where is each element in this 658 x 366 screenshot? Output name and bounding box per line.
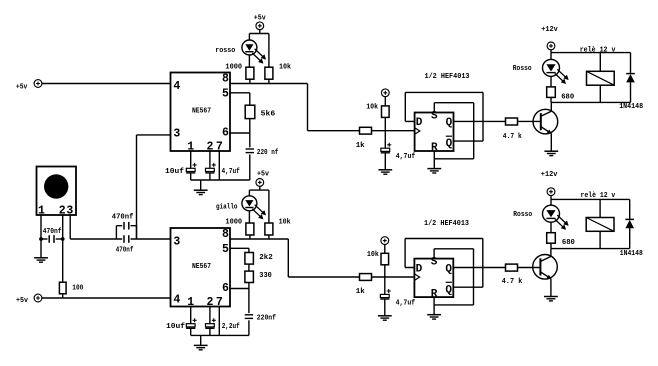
capacitor 10uf (U2 pin 1) (166, 307, 197, 336)
svg-text:6: 6 (222, 282, 229, 295)
supply terminal (FF2 10k) (381, 237, 389, 254)
svg-text:220nf: 220nf (257, 315, 277, 323)
capacitor 4,7uf (FF2 clock filter) (380, 289, 415, 316)
svg-text:relè 12 v: relè 12 v (581, 192, 616, 200)
resistor 4.7 k (Q2 base) (502, 264, 540, 286)
label 1/2 HEF4013 (FF1) (425, 73, 470, 81)
relay RL2 12 v (581, 192, 616, 248)
wire U1 pin 3 coupling net (137, 135, 171, 239)
diode 1N4148 (flyback 2) (620, 199, 643, 257)
relay RL1 12 v (580, 46, 616, 102)
wire U2 pin 7 to ground rail (218, 307, 220, 336)
ground (U1 caps) (194, 180, 208, 195)
svg-text:5: 5 (222, 88, 229, 101)
label 1/2 HEF4013 (FF2) (424, 220, 469, 228)
capacitor 220nf (U2 timing) (245, 289, 277, 336)
svg-text:+5v: +5v (16, 84, 28, 92)
transistor Q2 (NPN) (533, 254, 558, 279)
wire +5v to U2 pin 4 (41, 297, 170, 299)
wire LED/resistor split 2 (249, 190, 269, 223)
svg-text:10k: 10k (279, 218, 291, 226)
svg-text:+12v: +12v (541, 171, 558, 179)
resistor 10k (FF1 clock bias) (366, 103, 389, 148)
svg-text:+5v: +5v (257, 171, 269, 179)
wire U1 pin 6 (230, 132, 250, 134)
wire FF2 D to Qbar feedback (405, 239, 483, 288)
resistor 2k2 (U2 pin 5) (230, 248, 273, 271)
resistor 10k (pull-up U1 pin 8) (265, 63, 292, 83)
diode 1N4148 (flyback 1) (619, 53, 643, 111)
capacitor 4,7uf (U1 pin 2) (205, 151, 240, 180)
svg-text:10k: 10k (279, 63, 291, 71)
supply terminal +12v (top) (541, 26, 558, 53)
transistor Q1 (NPN) (533, 109, 558, 134)
svg-text:100: 100 (72, 284, 83, 292)
svg-text:1/2 HEF4013: 1/2 HEF4013 (424, 220, 469, 228)
wire FF1 S to ground loop (434, 103, 473, 159)
svg-text:giallo: giallo (216, 203, 238, 211)
resistor 5k6 (U1 pin5-pin6) (230, 93, 276, 133)
capacitor 470nf (top of parallel pair) (112, 214, 137, 239)
wire collector rail 2 (551, 248, 630, 250)
svg-text:470nf: 470nf (112, 214, 134, 222)
svg-text:3: 3 (173, 128, 180, 141)
svg-text:5k6: 5k6 (261, 110, 276, 118)
svg-text:D: D (416, 117, 423, 129)
LED Rosso D4 (513, 199, 568, 232)
ground (FF2 R) (427, 315, 441, 319)
svg-text:Q: Q (446, 117, 453, 129)
flip-flop U4 1/2 HEF4013 (414, 257, 453, 301)
ground (mic) (34, 258, 48, 262)
svg-text:1000: 1000 (225, 218, 242, 226)
svg-text:220 nf: 220 nf (257, 149, 279, 157)
wire collector rail 1 (551, 101, 631, 103)
IC U2 NE567 (bottom tone decoder) (171, 228, 231, 309)
resistor 10k (FF2 clock bias) (367, 251, 389, 295)
svg-text:470nf: 470nf (116, 247, 134, 255)
ground (FF1 R) (427, 169, 441, 173)
wire +5v to U1 pin 4 (41, 83, 170, 85)
svg-text:680: 680 (561, 93, 574, 101)
svg-text:Q: Q (445, 263, 452, 275)
svg-text:Q: Q (446, 138, 453, 150)
svg-text:NE567: NE567 (192, 263, 211, 271)
resistor 680 (LED Rosso 2) (547, 233, 576, 249)
svg-text:Q: Q (445, 284, 452, 296)
resistor 100 (mic bias) (59, 282, 83, 298)
svg-text:4: 4 (173, 294, 180, 307)
svg-text:470nf: 470nf (43, 228, 62, 236)
capacitor 220 nf (U1 timing) (246, 133, 279, 180)
resistor 10k (pull-up U2 pin 8) (265, 218, 291, 239)
svg-text:4: 4 (173, 80, 180, 93)
wire U2 pin 6 (230, 288, 249, 290)
wire U1 pin 8 output net (230, 84, 360, 131)
svg-text:1N4148: 1N4148 (619, 103, 643, 111)
svg-text:10k: 10k (366, 103, 378, 111)
ground (FF2 cap) (378, 316, 392, 320)
svg-text:Rosso: Rosso (513, 211, 532, 219)
wire +12v rail (top) (551, 52, 631, 54)
LED Rosso D3 (513, 53, 569, 87)
wire Q2 emitter to ground (550, 279, 552, 297)
resistor 1000 (LED rosso) (225, 63, 254, 83)
wire mic pin 1 to ground (40, 215, 42, 258)
svg-text:10uf: 10uf (166, 323, 186, 331)
wire FF2 Q output (453, 267, 505, 269)
capacitor 4,7uf (FF1 clock filter) (381, 143, 416, 170)
flip-flop U3 1/2 HEF4013 (415, 111, 454, 155)
resistor 1k (U1 out to FF1 clock) (356, 127, 415, 150)
svg-text:330: 330 (259, 272, 272, 280)
IC U1 NE567 (top tone decoder) (171, 73, 231, 154)
svg-text:1000: 1000 (225, 63, 242, 71)
svg-text:rosso: rosso (215, 47, 235, 55)
capacitor 470nf (bottom of parallel pair) (116, 235, 171, 255)
wire mic pin 2 down (62, 215, 64, 282)
capacitor 10uf (U1 pin 1) (165, 151, 197, 180)
supply terminal +12v (bottom) (541, 171, 558, 199)
resistor 330 (U2 pin 6) (245, 271, 272, 288)
ground (FF1 cap) (378, 170, 392, 174)
LED giallo D2 (216, 196, 266, 223)
svg-text:1k: 1k (356, 142, 365, 150)
wire LED/resistor split (249, 34, 269, 68)
svg-text:4,7uf: 4,7uf (396, 153, 416, 161)
svg-text:+12v: +12v (541, 26, 558, 34)
svg-text:Rosso: Rosso (513, 65, 532, 73)
ground (Q1 emitter) (544, 151, 558, 155)
wire ground rail U1 (191, 179, 250, 181)
wire Q1 emitter to ground (550, 134, 552, 152)
supply terminal +5v (bottom) (16, 294, 42, 305)
svg-text:10k: 10k (367, 251, 379, 259)
svg-text:680: 680 (562, 239, 575, 247)
svg-text:4,7uf: 4,7uf (222, 168, 241, 176)
wire FF1 R to ground (433, 151, 435, 168)
svg-text:8: 8 (222, 73, 229, 86)
resistor 4.7 k (Q1 base) (503, 118, 540, 141)
svg-text:3: 3 (173, 235, 180, 248)
svg-text:relè 12 v: relè 12 v (580, 46, 616, 54)
wire +12v rail (bottom) (551, 198, 630, 200)
supply terminal +5v (rosso LED) (254, 15, 266, 34)
svg-text:+5v: +5v (16, 297, 28, 305)
capacitor 470nf (mic pins 1-2) (39, 228, 65, 243)
svg-text:8: 8 (222, 228, 229, 241)
supply terminal +5v (left) (16, 80, 42, 92)
ground (U2 caps) (194, 335, 208, 349)
svg-text:2k2: 2k2 (259, 254, 273, 262)
wire FF2 R to ground (433, 297, 435, 314)
wire U2 pin 8 output net (230, 239, 360, 277)
resistor 1k (U2 out to FF2 clock) (356, 274, 415, 296)
resistor 680 (LED Rosso) (547, 87, 575, 103)
wire Q1 collector (550, 102, 552, 111)
supply terminal (FF1 10k) (381, 89, 389, 106)
wire mic pin 3 (70, 215, 122, 239)
svg-text:4.7 k: 4.7 k (502, 278, 523, 286)
svg-text:6: 6 (222, 126, 229, 139)
svg-text:1/2 HEF4013: 1/2 HEF4013 (425, 73, 470, 81)
svg-text:4.7 k: 4.7 k (503, 133, 522, 141)
resistor 1000 (LED giallo) (225, 218, 254, 239)
svg-text:2,2uf: 2,2uf (222, 323, 240, 331)
svg-text:1k: 1k (356, 288, 365, 296)
wire Q2 collector (550, 249, 552, 257)
svg-text:NE567: NE567 (192, 107, 211, 115)
LED rosso D1 (215, 40, 266, 67)
wire FF1 Q output (454, 120, 506, 122)
wire ground rail U2 (191, 334, 249, 336)
svg-text:10uf: 10uf (165, 168, 185, 176)
svg-text:1N4148: 1N4148 (620, 250, 643, 258)
wire FF1 D to Qbar feedback (405, 92, 483, 141)
capacitor 2,2uf (U2 pin 2) (205, 307, 240, 336)
wire FF2 S to ground loop (434, 249, 473, 305)
ground (Q2 emitter) (544, 297, 558, 301)
svg-text:D: D (416, 263, 423, 275)
wire U1 pin 7 to ground rail (218, 151, 220, 180)
svg-text:5: 5 (222, 243, 229, 256)
supply terminal +5v (giallo LED) (256, 171, 270, 190)
svg-text:4,7uf: 4,7uf (396, 300, 416, 308)
microphone MIC1 (37, 167, 77, 218)
